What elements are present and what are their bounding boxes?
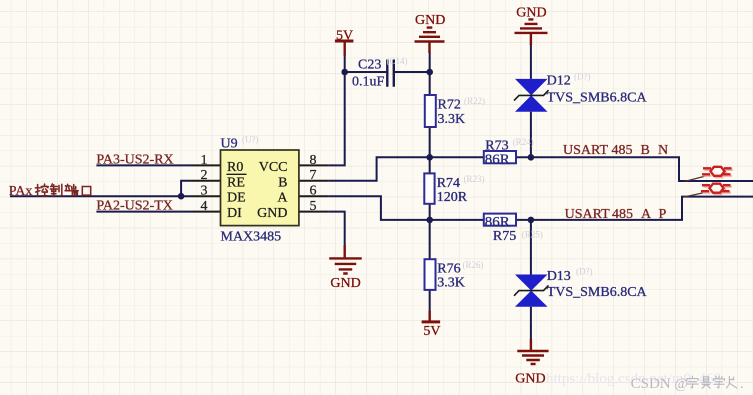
svg-text:TVS_SMB6.8CA: TVS_SMB6.8CA [547,285,648,300]
svg-text:3.3K: 3.3K [438,112,466,127]
svg-text:TVS_SMB6.8CA: TVS_SMB6.8CA [547,91,648,106]
svg-text:PAx: PAx [9,184,33,199]
svg-text:8: 8 [310,153,317,168]
svg-text:2: 2 [201,168,208,183]
svg-text:DI: DI [227,206,242,221]
svg-text:R72: R72 [438,98,461,113]
svg-text:3: 3 [201,184,208,199]
svg-text:6: 6 [310,184,317,199]
svg-text:5: 5 [310,199,317,214]
svg-text:GND: GND [415,13,445,28]
svg-text:R76: R76 [437,262,460,277]
svg-text:(D?): (D?) [574,72,591,82]
svg-text:R0: R0 [227,160,243,175]
svg-text:1: 1 [201,153,208,168]
svg-text:B: B [641,143,650,158]
svg-text:U9: U9 [221,137,238,152]
svg-text:5V: 5V [336,28,353,43]
svg-text:.: . [740,376,744,392]
svg-text:PA3-US2-RX: PA3-US2-RX [96,153,173,168]
svg-text:(D?): (D?) [576,267,593,277]
svg-text:485: 485 [612,143,633,158]
svg-text:5V: 5V [423,324,440,339]
svg-text:(R25): (R25) [522,230,543,240]
svg-text:USART: USART [563,143,609,158]
svg-text:N: N [658,143,668,158]
svg-text:MAX3485: MAX3485 [221,230,282,245]
svg-text:USART: USART [565,207,611,222]
svg-text:D13: D13 [547,269,571,284]
svg-text:86R: 86R [485,152,510,168]
svg-text:RE: RE [227,175,245,190]
svg-text:P: P [659,207,667,222]
svg-text:7: 7 [310,168,317,183]
svg-text:(R26): (R26) [463,260,484,270]
svg-text:86R: 86R [485,215,510,231]
svg-text:3.3K: 3.3K [437,276,465,291]
svg-text:DE: DE [227,191,246,206]
svg-text:(R24): (R24) [513,137,534,147]
svg-text:CSDN @: CSDN @ [631,376,689,392]
svg-text:C23: C23 [358,58,381,73]
svg-text:VCC: VCC [259,160,288,175]
svg-text:(C14): (C14) [387,56,408,66]
svg-text:(R22): (R22) [464,96,485,106]
svg-text:120R: 120R [437,190,468,205]
svg-text:GND: GND [515,371,545,386]
svg-text:485: 485 [612,207,633,222]
svg-text:GND: GND [330,276,360,291]
svg-text:(U?): (U?) [242,135,259,145]
svg-text:GND: GND [516,6,546,21]
svg-text:A: A [277,191,288,206]
svg-text:PA2-US2-TX: PA2-US2-TX [96,199,172,214]
svg-text:R74: R74 [437,176,460,191]
svg-text:R75: R75 [493,229,516,244]
svg-text:(R23): (R23) [464,174,485,184]
svg-text:0.1uF: 0.1uF [352,75,385,90]
svg-text:D12: D12 [547,74,571,89]
svg-text:4: 4 [201,199,208,214]
svg-text:GND: GND [257,206,287,221]
svg-text:B: B [278,175,287,190]
svg-text:A: A [641,207,652,222]
